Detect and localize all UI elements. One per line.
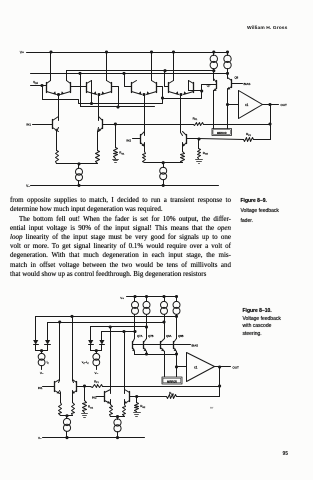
- degeneration resistor RE4: [182, 143, 184, 146]
- clamp diode D3: [88, 340, 93, 345]
- steering pair Q1A/Q1B: [46, 83, 48, 93]
- svg-text:Q8: Q8: [235, 76, 239, 80]
- node: RF1/RG1 node: [83, 385, 85, 387]
- wire Q2 collector to steering pair 2: [98, 95, 100, 121]
- svg-text:x1: x1: [194, 365, 198, 369]
- svg-text:OUT: OUT: [233, 365, 240, 369]
- node: output feedback tap: [269, 103, 271, 105]
- wire QB collector up: [73, 381, 74, 383]
- svg-text:BIAS: BIAS: [192, 343, 199, 347]
- right clamp join wire: [90, 345, 92, 351]
- transistor QC input pair2 left: [104, 392, 106, 402]
- current source CSA: [134, 297, 136, 302]
- wire VCA node down to bus C: [42, 86, 44, 100]
- current source CSD: [176, 297, 178, 302]
- svg-text:x1: x1: [245, 103, 249, 107]
- wire Q3A base to bus B: [125, 74, 132, 87]
- steering wire H4: [102, 331, 135, 333]
- long wire V4 pair2 right collector: [124, 332, 126, 391]
- svg-text:RG2: RG2: [203, 151, 209, 156]
- wire rail to Q3B collector: [151, 53, 153, 81]
- degeneration resistor RE3: [144, 143, 146, 146]
- svg-text:RG1: RG1: [88, 405, 94, 410]
- steering wire H1: [36, 316, 177, 318]
- svg-text:V+: V+: [20, 51, 24, 55]
- node: op-amp 2 input tap: [175, 366, 177, 368]
- svg-text:V–: V–: [95, 371, 99, 375]
- svg-text:IC: IC: [47, 360, 50, 365]
- wire mirror 2 to op-amp input: [177, 366, 187, 368]
- wire pair1 right base to RF1 node: [77, 386, 85, 388]
- wire Q1B collector to bus A: [66, 71, 68, 81]
- op-amp 2 output wire: [215, 366, 231, 368]
- svg-text:OUT: OUT: [281, 103, 288, 107]
- feedback wire from output: [270, 105, 272, 140]
- transistor QA input pair1 left: [54, 382, 56, 392]
- BIAS bus wire: [133, 344, 191, 346]
- svg-text:IN2: IN2: [126, 139, 131, 143]
- wire H3 to clamp diode D3: [90, 327, 92, 341]
- feedback wire from output 2: [219, 367, 221, 397]
- node: op-amp input tap: [226, 103, 228, 105]
- wire QC collector up: [110, 391, 112, 394]
- transistor Q2 input pair A right: [102, 120, 104, 129]
- degeneration resistor pair2 right: [124, 400, 126, 405]
- body paragraph text: [10, 196, 231, 205]
- rail junction dots: [50, 51, 52, 53]
- wire rail to Q2B collector: [106, 53, 108, 81]
- transistor Q1 input pair A left: [52, 120, 54, 129]
- degeneration resistor pair1 left: [60, 391, 61, 393]
- bus E wire: [81, 106, 155, 108]
- wire pair2 right base to RG2 node: [130, 396, 137, 398]
- wire Q3B base to bus C corner: [157, 87, 163, 99]
- bus C summing wire: [43, 91, 202, 104]
- transistor QB input pair1 right: [76, 382, 78, 392]
- node: bus B to CS2: [226, 72, 228, 74]
- pair2 emitter join wire: [111, 416, 125, 418]
- V- rail: [31, 185, 219, 187]
- long wire V1 pair1 left collector: [59, 323, 61, 381]
- IN1 wire 2: [43, 386, 55, 388]
- svg-text:Q7: Q7: [207, 84, 211, 88]
- V+ rail 2: [127, 296, 177, 298]
- current mirror box MIRROR: [212, 129, 232, 136]
- op-amp U1 x1 buffer: [239, 91, 263, 119]
- op-amp output wire: [263, 104, 279, 106]
- BIAS wire to Q8 base: [232, 83, 243, 85]
- resistor RG2: [198, 139, 200, 149]
- page header: author name: [247, 26, 287, 31]
- transistor Q3 input pair B left: [140, 135, 142, 144]
- wire CS1 to Q7 emitter: [213, 71, 215, 81]
- wire Q1B base to bus E: [71, 87, 81, 107]
- wire CS2 to Q8 emitter: [227, 74, 229, 79]
- ground for RG1 2: [82, 413, 88, 415]
- wire Q4B collector to bus C: [188, 81, 190, 91]
- tail current source pair A: [78, 164, 80, 169]
- current source CSC: [164, 297, 166, 302]
- svg-text:BIAS: BIAS: [244, 82, 251, 86]
- wire Q8B collector to L1: [176, 352, 178, 355]
- svg-text:RF1: RF1: [193, 116, 199, 121]
- svg-text:vC–IC: vC–IC: [82, 360, 89, 365]
- svg-text:RG1: RG1: [119, 151, 125, 156]
- wire Q7B collector to L1: [146, 352, 148, 355]
- current source CS2: [227, 53, 229, 56]
- wire H4 to clamp diode D4: [101, 332, 103, 341]
- caption: Figure 8-10: [243, 308, 281, 339]
- degeneration resistor pair1 right: [72, 391, 74, 393]
- wire rail to Q4A collector: [173, 53, 175, 81]
- wire Q4A base to bus A: [165, 71, 169, 87]
- current source CSB: [146, 297, 148, 302]
- svg-text:V–: V–: [40, 371, 44, 375]
- current mirror box MIRROR 2: [162, 377, 182, 384]
- clamp diode D2: [45, 340, 50, 345]
- svg-text:V–: V–: [38, 436, 42, 440]
- wire mirror node to op-amp input: [228, 104, 239, 106]
- control bus A: [67, 70, 214, 72]
- IN2 wire 2: [97, 396, 105, 398]
- steering pair Q2A/Q2B: [86, 83, 88, 93]
- steering wire H3: [91, 326, 147, 328]
- resistor RG1 2: [84, 387, 86, 401]
- ground for RG2: [196, 159, 203, 161]
- wire H2 to clamp diode D2: [47, 323, 49, 341]
- tail current source pair B: [163, 163, 165, 168]
- pair1 emitter join wire segment: [61, 415, 73, 417]
- caption: Figure 8-9: [241, 196, 279, 227]
- clamp current source Ic: [41, 351, 43, 354]
- wire pair B right base node: [187, 138, 199, 140]
- degeneration resistor RE1: [57, 128, 59, 132]
- wire Q7 collector to mirror: [213, 91, 215, 129]
- transistor QD input pair2 right: [129, 392, 131, 402]
- pair1 emitter join wire: [66, 415, 68, 417]
- svg-text:RF2: RF2: [246, 132, 252, 137]
- svg-text:V–: V–: [26, 184, 30, 188]
- pair A emitter join wire: [57, 163, 98, 165]
- svg-text:RG2: RG2: [140, 404, 146, 409]
- resistor RG1: [115, 125, 117, 148]
- tail current source pair2 2: [117, 417, 119, 420]
- node: pair A feedback node: [114, 123, 116, 125]
- wire Q2A collector to bus C: [91, 81, 93, 104]
- steering pair Q3A/Q3B: [131, 83, 133, 93]
- control bus B: [31, 73, 228, 75]
- svg-text:V+: V+: [120, 296, 124, 300]
- VCA control wire: [31, 85, 47, 87]
- wire QA collector up: [59, 381, 60, 383]
- wire Q2B base to bus E: [112, 87, 119, 107]
- tail current source pair1 2: [66, 416, 68, 419]
- feedback wire RF1 line: [116, 124, 194, 126]
- page number: [283, 451, 289, 457]
- wire Q4 collector to steering pair 4: [181, 95, 183, 136]
- svg-text:MIRROR: MIRROR: [217, 132, 227, 135]
- clamp diode D1: [33, 340, 38, 345]
- svg-text:vCA: vCA: [33, 80, 38, 85]
- degeneration resistor pair2 left: [110, 400, 112, 404]
- node: output 2 feedback tap: [219, 366, 221, 368]
- V- rail 2: [43, 437, 145, 439]
- svg-text:Q7B: Q7B: [148, 334, 154, 338]
- clamp diode D4: [99, 340, 104, 345]
- feedback wire RF2 line: [199, 139, 244, 140]
- wire Q8A collector to mirror 2: [164, 352, 166, 377]
- feedback wire RF2 line 2: [137, 396, 167, 398]
- wire QD collector up: [124, 391, 126, 394]
- transistor Q4 input pair B right: [186, 135, 188, 144]
- wire rail to Q1A collector: [50, 53, 52, 81]
- wire Q3 collector to steering pair 3: [144, 95, 146, 136]
- ground for RG2 2: [134, 412, 141, 414]
- cascode collector wire L1: [134, 352, 136, 355]
- wire Q7 base stub: [202, 85, 217, 91]
- current source CS1: [213, 53, 215, 56]
- V+ rail: [27, 52, 228, 54]
- svg-text:Q7A: Q7A: [137, 334, 143, 338]
- clamp current source Vc-Ic: [96, 351, 98, 354]
- svg-text:MIRROR: MIRROR: [167, 380, 177, 383]
- op-amp U2 x1 buffer: [187, 353, 215, 382]
- left clamp join wire: [35, 345, 37, 351]
- svg-text:IN1: IN1: [26, 123, 31, 127]
- svg-text:IN2: IN2: [92, 395, 97, 399]
- wire Q2A base to bus B: [81, 74, 87, 87]
- svg-text:mv: mv: [210, 406, 214, 409]
- wire H1 to clamp diode D1: [35, 317, 37, 341]
- pair B emitter join wire: [145, 162, 183, 164]
- IN2 wire: [133, 138, 141, 140]
- degeneration resistor RE2: [98, 128, 99, 132]
- resistor RG2 2: [136, 397, 138, 403]
- svg-text:RF1: RF1: [94, 379, 100, 384]
- svg-text:Q8B: Q8B: [178, 334, 184, 338]
- node: bus A to CS1: [213, 70, 215, 72]
- ground for RG1: [113, 159, 119, 161]
- wire Q8 collector to mirror and op-amp input: [227, 89, 229, 129]
- wire L1 to mirror and op-amp 2: [176, 355, 178, 377]
- steering wire H2: [48, 322, 165, 324]
- svg-text:Q8A: Q8A: [166, 334, 172, 338]
- long wire V3 pair2 left collector: [110, 327, 112, 391]
- feedback RF1 wire to output: [103, 386, 220, 388]
- wire Q1 collector to steering pair 1: [58, 95, 60, 121]
- long wire V2 pair1 right collector: [72, 317, 74, 381]
- wire pair A right base to feedback node: [103, 124, 116, 126]
- steering pair Q4A/Q4B: [168, 83, 170, 93]
- IN1 wire: [33, 124, 53, 126]
